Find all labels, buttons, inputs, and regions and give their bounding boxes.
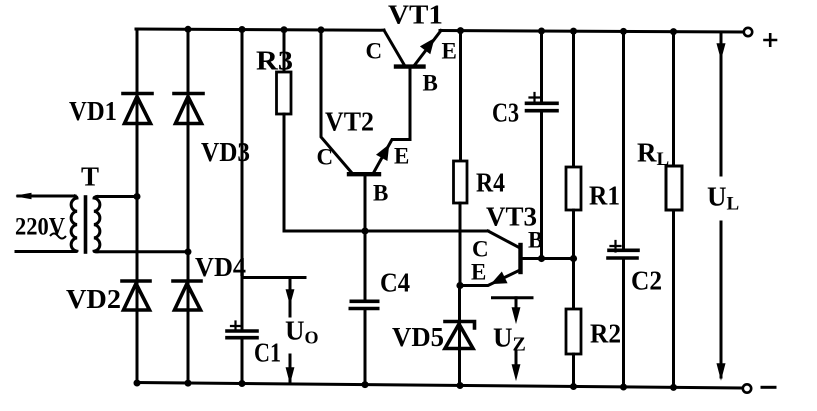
svg-text:VT1: VT1	[388, 0, 443, 30]
svg-text:C: C	[472, 237, 489, 262]
minus sign	[762, 386, 775, 389]
UZ measure line upper	[515, 298, 518, 310]
UO upper arrowhead	[287, 290, 294, 303]
resistor R4	[454, 161, 468, 203]
svg-text:B: B	[528, 228, 543, 253]
svg-text:R3: R3	[256, 46, 293, 76]
transistor VT1 collector	[384, 30, 404, 64]
UL measure line upper	[720, 32, 723, 175]
wire VT2 collector from top rail	[321, 30, 352, 173]
junction dot secondary top lead	[134, 193, 141, 200]
junction dot VT2 base on base net	[361, 227, 368, 234]
wire R1 column from top rail	[572, 31, 575, 167]
UZ lower arrowhead	[513, 365, 520, 378]
wire R3 bottom down to base net	[283, 114, 286, 231]
svg-text:VD3: VD3	[201, 137, 250, 167]
transistor VT1 emitter	[415, 31, 441, 65]
zener diode VD5	[445, 322, 475, 349]
wire secondary top lead to VD1/VD2 junction	[97, 195, 137, 198]
transistor VT2 base bar	[349, 172, 379, 176]
junction dot divider R1/R2	[570, 255, 577, 262]
wire VT1 base lead	[409, 68, 412, 140]
transformer T secondary winding	[94, 197, 100, 252]
junction dot VT3 emitter / VD5	[456, 282, 463, 289]
UO lower arrowhead	[287, 368, 294, 381]
UO measure line lower	[289, 355, 292, 382]
wire R4 column from top rail	[459, 31, 462, 161]
junction dot secondary bottom lead	[185, 248, 192, 255]
capacitor C2	[608, 250, 638, 258]
wire C4 column	[364, 231, 367, 385]
junction dot top rail R1	[570, 28, 577, 35]
resistor R1	[566, 167, 581, 210]
wire R2 bottom to bottom rail	[572, 354, 575, 387]
UZ upper arrowhead	[513, 308, 520, 321]
svg-text:B: B	[423, 71, 438, 96]
resistor R3	[277, 72, 292, 114]
output terminal + circle	[744, 28, 752, 36]
diode VD4	[173, 281, 201, 310]
C3 plus polarity mark	[530, 93, 540, 102]
svg-text:C1: C1	[254, 338, 281, 368]
junction dot bottom rail VD4	[185, 380, 192, 387]
C2 plus polarity mark	[611, 241, 621, 252]
svg-text:R4: R4	[476, 168, 505, 198]
junction dot top rail RL	[670, 28, 677, 35]
resistor R2	[566, 309, 581, 354]
VT2 emitter arrowhead	[378, 147, 388, 160]
svg-text:VD4: VD4	[195, 252, 246, 282]
UL measure line lower	[720, 222, 723, 377]
junction dot bottom rail C1	[239, 380, 246, 387]
wire C3 column from top rail	[540, 31, 543, 259]
wire base net horizontal (R3 / VT2 base / VT3 collector)	[284, 230, 488, 233]
diode VD1	[123, 94, 152, 124]
svg-text:C: C	[317, 145, 334, 170]
UL upper arrowhead (down)	[718, 44, 725, 57]
svg-text:VD1: VD1	[69, 96, 117, 126]
svg-text:R1: R1	[589, 181, 620, 211]
svg-text:T: T	[81, 162, 99, 192]
svg-text:VD2: VD2	[66, 284, 121, 314]
svg-text:VT2: VT2	[325, 107, 374, 137]
UO reference bar	[242, 276, 305, 279]
svg-text:C4: C4	[380, 268, 410, 298]
junction dot bottom rail C4	[362, 381, 369, 388]
junction dot top rail VD3	[185, 26, 192, 33]
svg-text:R2: R2	[590, 319, 621, 349]
wire R3 column top	[283, 30, 286, 72]
wire divider junction to R2	[572, 259, 575, 310]
wire bottom rail	[136, 383, 742, 389]
svg-text:E: E	[442, 39, 457, 64]
C1 plus polarity mark	[231, 322, 240, 331]
svg-text:C3: C3	[492, 98, 519, 128]
transistor VT3 emitter	[460, 270, 520, 286]
wire C1 filter column	[241, 30, 244, 384]
transformer T primary bottom lead	[16, 250, 75, 253]
transformer T primary lead arrowhead	[16, 193, 31, 198]
wire top rail right (output) segment	[440, 31, 744, 33]
junction dot top rail R3	[281, 26, 288, 33]
output terminal - circle	[743, 384, 751, 392]
junction dot top rail VT2 collector	[318, 26, 325, 33]
wire VD5 column	[458, 286, 461, 386]
wire right bridge column (VD3/VD4 branch)	[187, 29, 190, 383]
wire R1 bottom to divider junction	[572, 210, 575, 259]
capacitor C3	[527, 103, 558, 110]
diode VD2	[122, 281, 150, 310]
UZ measure line lower	[515, 352, 518, 366]
UL lower arrowhead (down)	[718, 364, 725, 378]
junction dot bottom rail R2	[570, 383, 577, 390]
transistor VT3 collector diagonal	[488, 231, 520, 248]
svg-text:B: B	[373, 181, 388, 206]
transformer T core	[84, 197, 88, 252]
svg-text:C: C	[366, 39, 383, 64]
VT3 emitter arrowhead	[493, 273, 506, 283]
wire top rail left (input) segment	[136, 29, 384, 30]
resistor RL	[666, 166, 682, 210]
UZ reference bar	[493, 296, 533, 299]
wire VT2 base lead	[364, 175, 367, 231]
wire R4 bottom to VT3 emitter junction	[459, 203, 462, 286]
AC tilde mark	[50, 234, 66, 239]
wire RL column	[672, 32, 675, 388]
wire C2 column	[622, 31, 625, 387]
transformer T primary top lead	[18, 195, 75, 198]
transistor VT2 emitter	[374, 140, 410, 173]
junction dot top rail C2	[620, 28, 627, 35]
VT1 emitter arrowhead	[422, 40, 433, 53]
wire left bridge column (VD1/VD2 branch)	[136, 29, 139, 383]
transformer T primary winding	[71, 196, 77, 252]
junction dot top rail R4	[457, 27, 464, 34]
wire secondary bottom lead to VD3/VD4 junction	[97, 250, 188, 253]
transistor VT3 base bar	[518, 245, 522, 272]
junction dot top rail C1	[239, 26, 246, 33]
transistor VT1 base bar	[396, 64, 424, 68]
junction dot bottom rail VD2	[134, 380, 141, 387]
svg-text:E: E	[394, 144, 409, 169]
UO measure line upper with down arrowhead	[289, 278, 292, 317]
junction dot bottom rail VD5	[457, 382, 464, 389]
wire VT3 base out to divider	[521, 257, 573, 260]
junction dot top rail C3	[538, 28, 545, 35]
svg-text:C2: C2	[631, 266, 662, 296]
junction dot VT3 base / C3	[538, 255, 545, 262]
svg-text:VD5: VD5	[392, 322, 444, 352]
junction dot bottom rail RL	[670, 384, 677, 391]
capacitor C1	[227, 331, 257, 338]
svg-text:E: E	[471, 260, 486, 285]
junction dot bottom rail C2	[620, 384, 627, 391]
diode VD3	[174, 94, 203, 124]
capacitor C4	[349, 301, 380, 308]
plus sign	[765, 34, 777, 45]
